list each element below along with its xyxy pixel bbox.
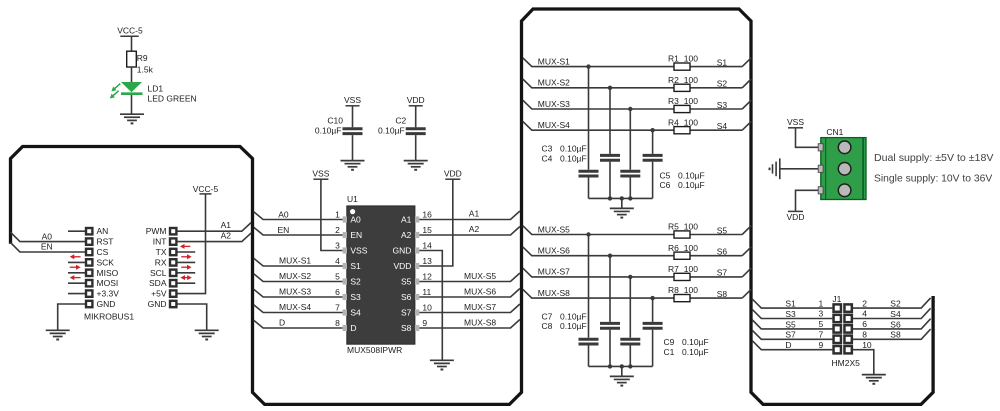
svg-text:VSS: VSS: [312, 168, 329, 178]
svg-text:GND: GND: [148, 299, 167, 309]
svg-text:14: 14: [422, 241, 432, 251]
svg-text:S7: S7: [717, 268, 728, 278]
svg-text:MUX-S7: MUX-S7: [464, 302, 496, 312]
svg-text:RST: RST: [97, 237, 114, 247]
svg-text:S3: S3: [350, 292, 361, 302]
svg-text:S8: S8: [717, 289, 728, 299]
svg-text:12: 12: [422, 272, 432, 282]
svg-text:MUX-S3: MUX-S3: [538, 99, 570, 109]
svg-text:S5: S5: [785, 319, 796, 329]
svg-text:R4: R4: [668, 117, 679, 127]
svg-text:CN1: CN1: [826, 127, 843, 137]
svg-text:MIKROBUS1: MIKROBUS1: [84, 312, 134, 322]
svg-text:U1: U1: [347, 194, 358, 204]
svg-text:100: 100: [684, 264, 698, 274]
svg-text:6: 6: [862, 319, 867, 329]
svg-text:0.10µF: 0.10µF: [560, 144, 587, 154]
svg-text:MUX-S5: MUX-S5: [538, 224, 570, 234]
svg-text:MUX-S7: MUX-S7: [538, 267, 570, 277]
svg-text:3: 3: [818, 309, 823, 319]
svg-text:HM2X5: HM2X5: [832, 358, 861, 368]
svg-text:S5: S5: [717, 225, 728, 235]
svg-text:LED GREEN: LED GREEN: [148, 94, 197, 104]
svg-text:VSS: VSS: [350, 246, 367, 256]
svg-text:100: 100: [684, 54, 698, 64]
svg-text:S6: S6: [890, 319, 901, 329]
svg-text:1: 1: [818, 298, 823, 308]
svg-text:C6: C6: [660, 180, 671, 190]
svg-text:4: 4: [862, 309, 867, 319]
svg-text:3: 3: [335, 241, 340, 251]
svg-text:R1: R1: [668, 54, 679, 64]
svg-text:1.5k: 1.5k: [137, 64, 154, 74]
svg-text:S6: S6: [717, 247, 728, 257]
svg-text:MUX-S1: MUX-S1: [538, 56, 570, 66]
svg-text:10: 10: [862, 340, 872, 350]
svg-text:A1: A1: [221, 220, 232, 230]
svg-text:EN: EN: [41, 242, 53, 252]
svg-text:C3: C3: [542, 144, 553, 154]
svg-text:C8: C8: [542, 321, 553, 331]
svg-text:VDD: VDD: [407, 95, 425, 105]
svg-text:S4: S4: [717, 121, 728, 131]
svg-text:D: D: [350, 323, 356, 333]
svg-text:MOSI: MOSI: [97, 278, 119, 288]
svg-text:EN: EN: [277, 225, 289, 235]
svg-text:R8: R8: [668, 285, 679, 295]
svg-text:S5: S5: [401, 277, 412, 287]
svg-text:+5V: +5V: [151, 289, 167, 299]
svg-text:1: 1: [335, 210, 340, 220]
svg-text:S6: S6: [401, 292, 412, 302]
svg-text:C9: C9: [664, 337, 675, 347]
svg-text:0.10µF: 0.10µF: [682, 337, 709, 347]
svg-text:2: 2: [335, 225, 340, 235]
svg-text:MUX-S2: MUX-S2: [538, 78, 570, 88]
svg-text:S1: S1: [785, 299, 796, 309]
svg-text:S7: S7: [785, 330, 796, 340]
svg-text:C5: C5: [660, 170, 671, 180]
svg-text:C10: C10: [327, 116, 343, 126]
svg-text:0.10µF: 0.10µF: [315, 126, 342, 136]
svg-text:MUX-S5: MUX-S5: [464, 271, 496, 281]
svg-text:S3: S3: [717, 100, 728, 110]
svg-text:D: D: [279, 317, 285, 327]
svg-text:10: 10: [422, 303, 432, 313]
svg-text:VSS: VSS: [344, 95, 361, 105]
svg-text:GND: GND: [97, 299, 116, 309]
svg-text:J1: J1: [832, 294, 841, 304]
svg-text:C2: C2: [395, 116, 406, 126]
svg-text:100: 100: [684, 117, 698, 127]
svg-text:MISO: MISO: [97, 268, 119, 278]
svg-text:100: 100: [684, 285, 698, 295]
svg-text:C7: C7: [542, 311, 553, 321]
svg-text:INT: INT: [153, 237, 167, 247]
svg-text:7: 7: [818, 330, 823, 340]
svg-text:MUX-S3: MUX-S3: [279, 286, 311, 296]
svg-text:0.10µF: 0.10µF: [560, 311, 587, 321]
svg-text:S1: S1: [717, 57, 728, 67]
svg-text:0.10µF: 0.10µF: [560, 153, 587, 163]
svg-text:100: 100: [684, 243, 698, 253]
svg-text:VDD: VDD: [393, 261, 411, 271]
svg-text:5: 5: [335, 272, 340, 282]
svg-text:5: 5: [818, 319, 823, 329]
svg-text:A0: A0: [278, 209, 289, 219]
svg-text:VCC-5: VCC-5: [117, 26, 143, 36]
svg-text:0.10µF: 0.10µF: [678, 170, 705, 180]
svg-text:VDD: VDD: [787, 212, 805, 222]
svg-text:A2: A2: [469, 224, 480, 234]
svg-text:S8: S8: [890, 330, 901, 340]
svg-text:S7: S7: [401, 308, 412, 318]
svg-text:R2: R2: [668, 75, 679, 85]
svg-text:MUX-S6: MUX-S6: [538, 246, 570, 256]
svg-text:R7: R7: [668, 264, 679, 274]
svg-text:A0: A0: [350, 215, 361, 225]
svg-text:R5: R5: [668, 222, 679, 232]
svg-text:6: 6: [335, 287, 340, 297]
svg-text:Single supply: 10V to 36V: Single supply: 10V to 36V: [874, 172, 992, 184]
svg-text:EN: EN: [350, 230, 362, 240]
svg-text:S4: S4: [890, 309, 901, 319]
svg-text:0.10µF: 0.10µF: [378, 126, 405, 136]
svg-text:CS: CS: [97, 247, 109, 257]
svg-text:LD1: LD1: [148, 84, 164, 94]
svg-text:VSS: VSS: [787, 117, 804, 127]
svg-text:11: 11: [422, 287, 431, 297]
svg-text:13: 13: [422, 256, 432, 266]
svg-text:C4: C4: [542, 153, 553, 163]
svg-text:+3.3V: +3.3V: [97, 289, 120, 299]
svg-text:S1: S1: [350, 261, 361, 271]
svg-text:AN: AN: [97, 226, 109, 236]
svg-text:D: D: [785, 340, 791, 350]
svg-text:A1: A1: [401, 215, 412, 225]
svg-text:S3: S3: [785, 309, 796, 319]
svg-text:0.10µF: 0.10µF: [560, 321, 587, 331]
svg-text:A0: A0: [42, 231, 53, 241]
svg-text:16: 16: [422, 210, 432, 220]
svg-text:S8: S8: [401, 323, 412, 333]
svg-text:MUX-S8: MUX-S8: [464, 317, 496, 327]
svg-text:SDA: SDA: [149, 278, 167, 288]
svg-text:C1: C1: [664, 347, 675, 357]
svg-text:MUX508IPWR: MUX508IPWR: [347, 345, 402, 355]
svg-text:R9: R9: [137, 53, 148, 63]
svg-text:100: 100: [684, 222, 698, 232]
svg-text:A2: A2: [221, 231, 232, 241]
svg-text:15: 15: [422, 225, 432, 235]
svg-text:8: 8: [335, 318, 340, 328]
svg-text:MUX-S1: MUX-S1: [279, 255, 311, 265]
svg-text:Dual supply: ±5V to ±18V: Dual supply: ±5V to ±18V: [874, 152, 993, 164]
svg-text:A1: A1: [469, 208, 480, 218]
svg-text:S2: S2: [717, 79, 728, 89]
svg-text:MUX-S4: MUX-S4: [538, 120, 570, 130]
svg-text:4: 4: [335, 256, 340, 266]
svg-text:S2: S2: [350, 277, 361, 287]
svg-text:0.10µF: 0.10µF: [682, 347, 709, 357]
svg-text:SCK: SCK: [97, 257, 115, 267]
svg-text:A2: A2: [401, 230, 412, 240]
svg-text:RX: RX: [155, 257, 167, 267]
svg-text:MUX-S4: MUX-S4: [279, 302, 311, 312]
svg-text:MUX-S2: MUX-S2: [279, 271, 311, 281]
svg-text:R3: R3: [668, 96, 679, 106]
svg-text:7: 7: [335, 303, 340, 313]
svg-text:9: 9: [818, 340, 823, 350]
svg-text:MUX-S8: MUX-S8: [538, 288, 570, 298]
svg-text:S4: S4: [350, 308, 361, 318]
svg-text:SCL: SCL: [150, 268, 167, 278]
svg-text:100: 100: [684, 96, 698, 106]
svg-text:R6: R6: [668, 243, 679, 253]
svg-text:0.10µF: 0.10µF: [678, 180, 705, 190]
svg-text:8: 8: [862, 330, 867, 340]
svg-text:MUX-S6: MUX-S6: [464, 286, 496, 296]
svg-text:9: 9: [422, 318, 427, 328]
svg-text:S2: S2: [890, 299, 901, 309]
svg-text:100: 100: [684, 75, 698, 85]
svg-text:TX: TX: [156, 247, 167, 257]
svg-text:VDD: VDD: [444, 168, 462, 178]
svg-text:GND: GND: [393, 246, 412, 256]
svg-text:VCC-5: VCC-5: [193, 184, 219, 194]
svg-text:PWM: PWM: [146, 226, 167, 236]
svg-text:2: 2: [862, 298, 867, 308]
